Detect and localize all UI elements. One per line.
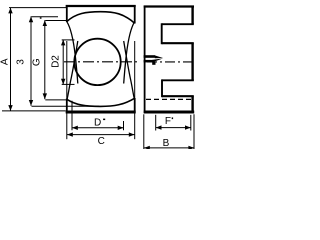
- 3 arrows: [29, 16, 33, 22]
- horizontal centerline left view: [64, 61, 140, 63]
- ext D1 left: [71, 101, 73, 130]
- window1 bottom edge: [162, 42, 194, 44]
- saddle curve right leg back: [124, 41, 135, 100]
- D tick mark: [103, 119, 105, 121]
- saddle curve right leg front: [124, 22, 135, 84]
- D1 arrows: [72, 126, 78, 130]
- left side silhouette thin: [66, 41, 68, 99]
- ext D1 right: [123, 121, 125, 130]
- F arrows: [156, 125, 162, 129]
- A arrows: [8, 8, 12, 14]
- left side edge thick top: [66, 5, 68, 22]
- ext G top: [45, 20, 66, 22]
- ext 3 bottom: [32, 105, 100, 107]
- centerline right view: [147, 61, 192, 63]
- arrowheads left view dims: [8, 8, 134, 137]
- ext D2 bottom: [62, 83, 75, 85]
- hidden dashed line: [146, 98, 192, 100]
- top edge: [144, 5, 194, 7]
- right tip face top prong: [191, 6, 193, 25]
- right side edge thick top: [134, 5, 136, 24]
- G arrows: [43, 20, 47, 26]
- window2 top edge: [162, 79, 194, 81]
- svg-text:3: 3: [16, 59, 27, 65]
- bottom yoke inner arc: [67, 98, 135, 106]
- dim F line: [156, 127, 191, 129]
- dim D1 line: [72, 127, 124, 129]
- labels left view: [0, 55, 105, 147]
- top yoke inner arc (dome): [67, 12, 135, 24]
- dim D2 line: [62, 40, 64, 85]
- bottom edge: [66, 110, 136, 113]
- svg-text:B: B: [163, 138, 170, 149]
- center gap marks: [144, 55, 164, 65]
- ext D2 top: [62, 39, 75, 41]
- bottom edge: [144, 110, 195, 113]
- ext F right: [190, 115, 192, 131]
- ext A bottom (bottom edge extended): [2, 110, 66, 112]
- top edge: [66, 5, 136, 7]
- right side edge thick bottom: [134, 98, 136, 113]
- dim G line: [44, 20, 46, 99]
- svg-text:F: F: [165, 116, 171, 127]
- svg-text:G: G: [31, 58, 42, 66]
- svg-text:D2: D2: [50, 55, 61, 68]
- dim C line: [67, 134, 135, 136]
- core outline rectangle: [66, 5, 136, 113]
- saddle curve left leg back: [67, 41, 78, 100]
- right tip face bottom prong: [191, 96, 193, 113]
- center post circle: [74, 39, 120, 85]
- C arrows: [67, 132, 73, 136]
- left edge (back of core): [144, 6, 146, 114]
- svg-text:D: D: [94, 118, 101, 129]
- F tick mark: [172, 117, 173, 119]
- ext 3 top: [32, 16, 59, 18]
- right tip face middle prong: [191, 43, 193, 81]
- dim B line: [144, 147, 194, 149]
- dim 3 line: [30, 16, 32, 105]
- window1 floor: [161, 23, 163, 44]
- stray scan dot: [40, 17, 42, 18]
- svg-text:C: C: [98, 136, 105, 147]
- ext A top: [9, 7, 66, 9]
- B arrows: [144, 146, 150, 150]
- ext B left: [143, 114, 145, 149]
- window2 floor: [161, 79, 163, 97]
- window2 bottom edge: [162, 95, 194, 97]
- window1 top edge: [162, 23, 194, 25]
- ext G bottom: [45, 99, 66, 101]
- ext C right: [134, 114, 136, 140]
- right side silhouette thin: [134, 41, 136, 98]
- saddle curve left leg front: [67, 22, 78, 84]
- dim A line: [10, 8, 12, 111]
- D2 arrows: [61, 40, 65, 46]
- svg-text:A: A: [0, 58, 10, 65]
- left side edge thick bottom: [66, 99, 68, 114]
- ext C left: [66, 114, 68, 140]
- ext F left: [155, 115, 157, 131]
- ext B right: [193, 114, 195, 149]
